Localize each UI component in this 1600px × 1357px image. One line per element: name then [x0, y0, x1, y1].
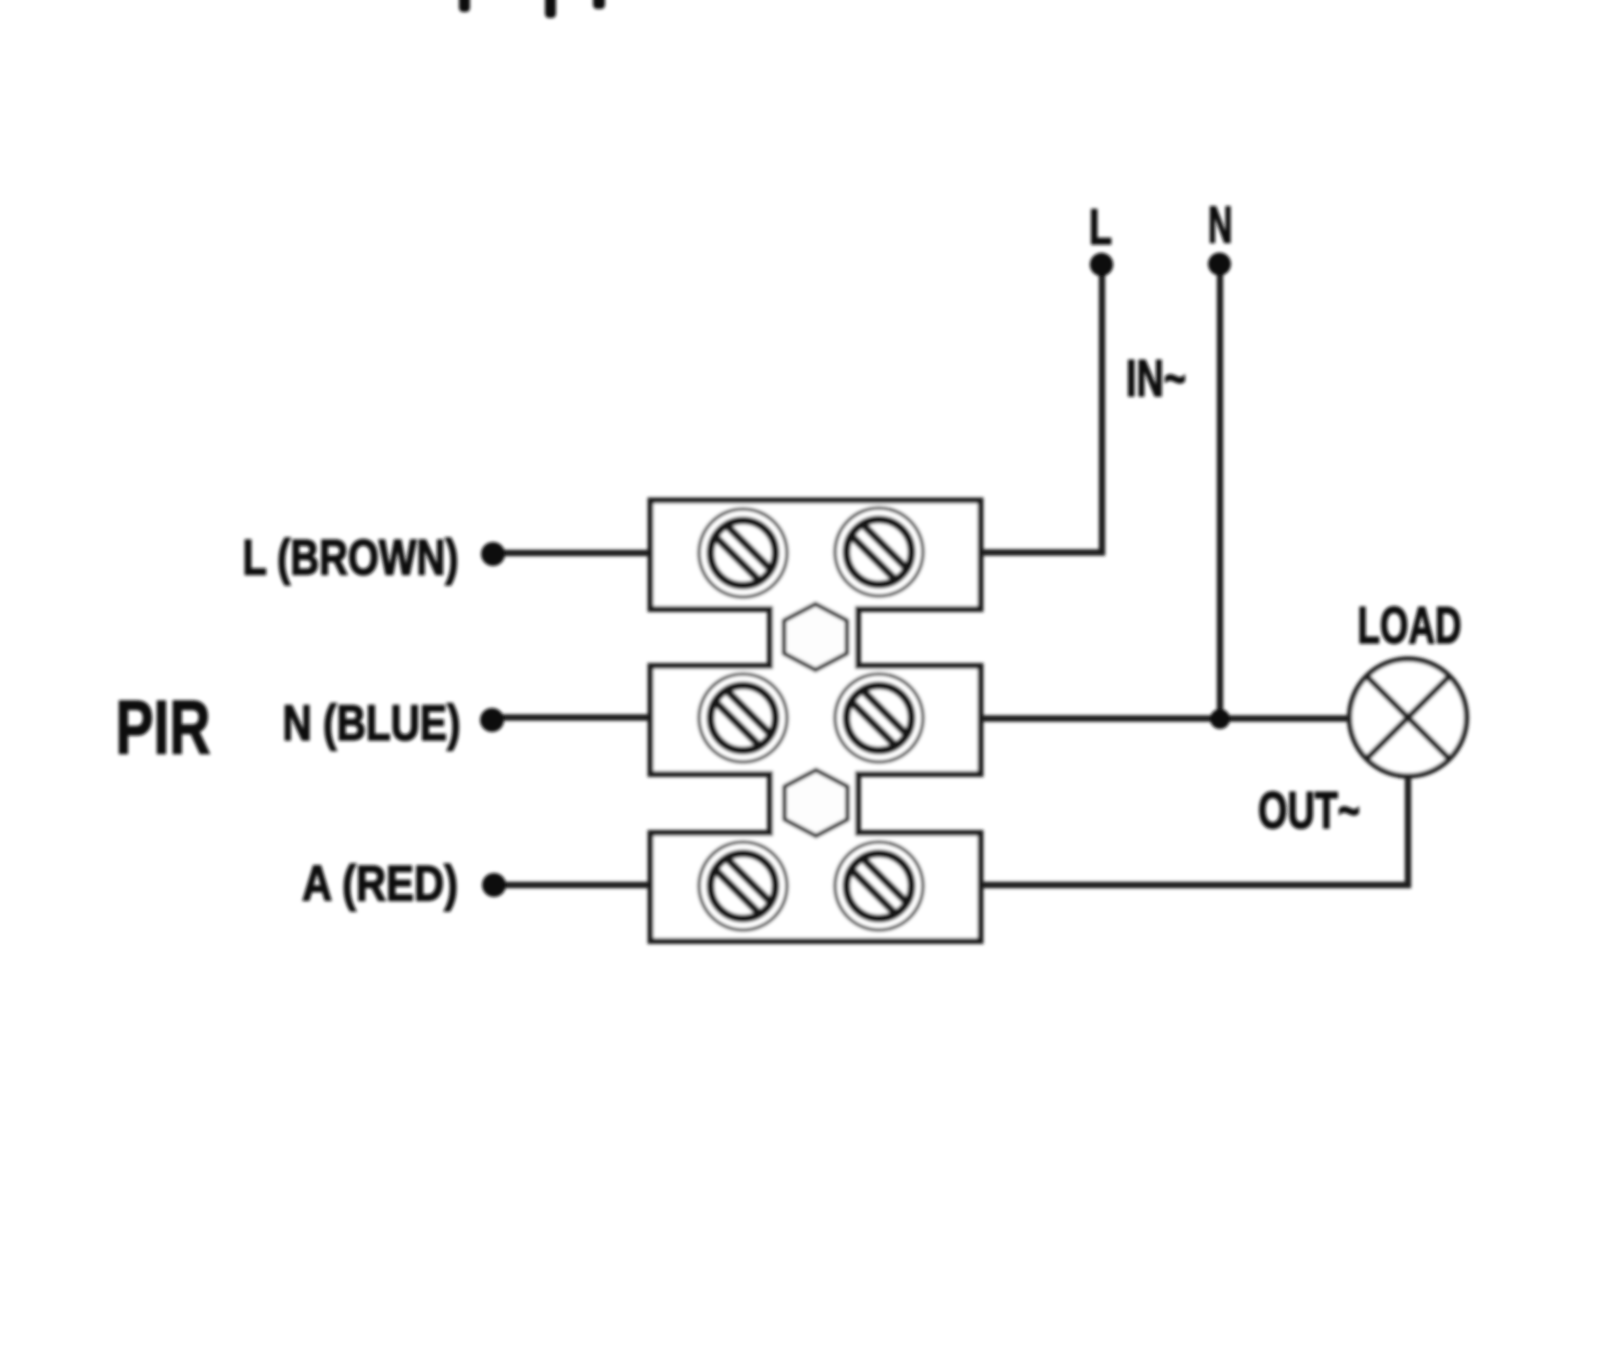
svg-text:L: L: [1089, 199, 1112, 255]
svg-text:L (BROWN): L (BROWN): [243, 530, 459, 586]
svg-text:IN~: IN~: [1126, 350, 1186, 408]
svg-text:A (RED): A (RED): [302, 856, 458, 912]
svg-text:LOAD: LOAD: [1358, 597, 1462, 655]
svg-text:N (BLUE): N (BLUE): [283, 695, 461, 751]
svg-text:OUT~: OUT~: [1258, 782, 1360, 840]
svg-text:N: N: [1208, 197, 1233, 255]
svg-text:PIR: PIR: [116, 686, 211, 771]
